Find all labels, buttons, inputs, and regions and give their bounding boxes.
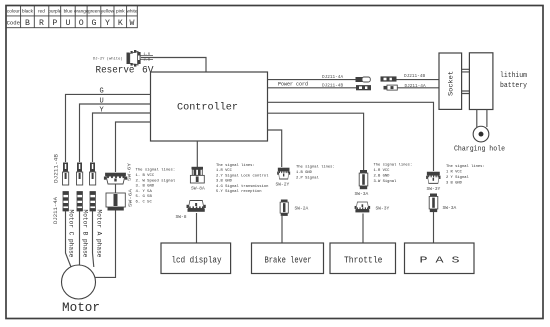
- svg-text:2.B GND: 2.B GND: [374, 175, 391, 179]
- svg-text:U: U: [66, 19, 71, 28]
- svg-text:The signal lines:: The signal lines:: [446, 164, 485, 169]
- brake lever box: [252, 243, 324, 274]
- controller U1 box: [151, 72, 268, 141]
- svg-text:1 R VCC: 1 R VCC: [446, 171, 463, 175]
- svg-text:Code: Code: [7, 20, 20, 27]
- svg-text:colour: colour: [7, 9, 20, 14]
- wire motor B phase: [79, 211, 81, 266]
- charging stem: [477, 110, 487, 128]
- svg-text:3.W Signal: 3.W Signal: [374, 179, 398, 184]
- brake signal lines note: [296, 165, 335, 181]
- svg-text:Charging hole: Charging hole: [454, 146, 505, 154]
- wire SW-3Y to throttle: [362, 214, 364, 243]
- connector DJ211-4A male A: [90, 192, 96, 212]
- svg-text:The signal lines:: The signal lines:: [374, 163, 413, 168]
- svg-text:orange: orange: [74, 9, 89, 14]
- svg-text:white: white: [127, 9, 138, 14]
- svg-text:3.B GND: 3.B GND: [216, 180, 233, 184]
- wire motor A phase: [93, 211, 94, 267]
- svg-text:lcd display: lcd display: [172, 256, 222, 266]
- connector pair row2 female: [384, 85, 398, 90]
- svg-text:SW-8: SW-8: [176, 214, 187, 220]
- svg-text:SW-6A: SW-6A: [128, 189, 134, 207]
- svg-text:SW-2A: SW-2A: [295, 206, 309, 212]
- colour code table: [6, 6, 137, 28]
- wire controller to SW-3Y pas: [268, 102, 434, 171]
- svg-text:The signal lines:: The signal lines:: [136, 168, 176, 173]
- svg-text:P: P: [52, 19, 57, 28]
- svg-text:The signal lines:: The signal lines:: [216, 163, 255, 168]
- svg-text:2.P Signal: 2.P Signal: [296, 176, 320, 181]
- svg-text:battery: battery: [500, 82, 528, 90]
- svg-text:The signal lines:: The signal lines:: [296, 165, 335, 170]
- svg-text:1. B VCC: 1. B VCC: [136, 174, 155, 178]
- wire SW-8 to lcd: [196, 213, 198, 243]
- svg-text:3. B GND: 3. B GND: [136, 185, 155, 189]
- socket-battery link top: [462, 69, 470, 72]
- connector SW-2Y: [277, 168, 290, 179]
- power cord wire 1: [268, 79, 356, 81]
- hall signal lines note: [136, 168, 176, 205]
- connector SW-3Y pas: [426, 172, 440, 184]
- svg-text:Y: Y: [105, 19, 110, 28]
- socket-battery link bottom: [462, 91, 470, 94]
- svg-text:SW-8A: SW-8A: [191, 186, 205, 192]
- svg-text:U: U: [100, 97, 104, 105]
- svg-text:DJ211-4A: DJ211-4A: [322, 75, 343, 80]
- connector SW-2A: [280, 200, 288, 216]
- svg-text:5.Y Signal reception: 5.Y Signal reception: [216, 189, 262, 194]
- svg-text:purple: purple: [48, 9, 61, 14]
- svg-text:SW-6Y: SW-6Y: [127, 163, 133, 181]
- connector SW-6A: [106, 193, 125, 211]
- connector DJ211-4B female C: [63, 163, 69, 186]
- svg-text:4.G Signal transmission: 4.G Signal transmission: [216, 184, 268, 189]
- connector pair row2 male: [356, 85, 371, 90]
- connector SW-8A: [190, 167, 204, 183]
- svg-text:R: R: [39, 19, 44, 28]
- connector SW-3Y throttle: [355, 202, 371, 212]
- svg-text:Throttle: Throttle: [344, 256, 383, 266]
- svg-text:SW-3Y: SW-3Y: [376, 206, 390, 212]
- connector DJ211-4A male C: [63, 192, 69, 212]
- svg-text:6. C 5C: 6. C 5C: [136, 201, 153, 205]
- connector DJ211-4B female A: [90, 163, 96, 186]
- svg-text:B: B: [25, 19, 30, 28]
- svg-text:Socket: Socket: [447, 71, 455, 96]
- svg-text:G: G: [92, 19, 97, 28]
- connector SW-8 crown: [187, 201, 206, 212]
- svg-text:1.B GND: 1.B GND: [296, 171, 313, 175]
- svg-text:2.Y Signal Lock control: 2.Y Signal Lock control: [216, 173, 269, 178]
- svg-text:SW-3A: SW-3A: [443, 205, 457, 211]
- connector SW-3A throttle: [359, 170, 368, 189]
- svg-text:1.R VCC: 1.R VCC: [216, 169, 233, 173]
- connector DJ211-4B female B: [77, 163, 83, 186]
- lcd signal lines note: [216, 163, 269, 194]
- svg-text:Brake lever: Brake lever: [265, 256, 312, 266]
- svg-text:1.R VCC: 1.R VCC: [374, 169, 391, 173]
- svg-text:black: black: [22, 9, 34, 14]
- svg-text:yellow: yellow: [101, 9, 115, 14]
- colour code table row1 text: [7, 9, 138, 14]
- svg-text:Motor: Motor: [62, 301, 100, 315]
- wire hall through: [95, 185, 116, 278]
- reserve connector DJ-2Y: [93, 50, 153, 67]
- svg-text:K: K: [118, 19, 123, 28]
- svg-text:pink: pink: [116, 9, 125, 14]
- connector SW-3A pas: [429, 194, 438, 213]
- throttle box: [330, 243, 396, 274]
- svg-text:O: O: [79, 19, 84, 28]
- wire U: [80, 104, 151, 162]
- svg-text:lithium: lithium: [500, 72, 527, 80]
- colour code table row2 text: [7, 19, 135, 28]
- wire SW-3A to pas: [433, 212, 435, 243]
- svg-text:DJ-2Y (white): DJ-2Y (white): [93, 57, 123, 62]
- svg-text:3 B GND: 3 B GND: [446, 182, 463, 186]
- wire controller to SW-3A throttle: [268, 113, 364, 170]
- wire motor C phase: [66, 211, 72, 267]
- svg-text:G: G: [100, 87, 104, 95]
- wire controller to SW-8A: [196, 141, 198, 167]
- svg-text:DJ211-4B: DJ211-4B: [322, 83, 343, 88]
- svg-text:Power cord: Power cord: [278, 81, 308, 87]
- svg-text:2. W Speed signal: 2. W Speed signal: [136, 178, 176, 183]
- svg-text:Controller: Controller: [177, 102, 238, 114]
- svg-text:2 Y Signal: 2 Y Signal: [446, 175, 470, 180]
- svg-text:P A S: P A S: [420, 256, 460, 266]
- charging hole: [473, 126, 489, 142]
- connector pair row1 male: [381, 76, 397, 81]
- lcd display box: [161, 243, 231, 274]
- svg-text:4. Y 5A: 4. Y 5A: [136, 190, 153, 194]
- wire to socket 1: [397, 79, 440, 81]
- wire G: [66, 94, 151, 162]
- svg-text:blue: blue: [64, 9, 73, 14]
- connector SW-6Y: [104, 173, 127, 184]
- svg-text:SW-2Y: SW-2Y: [276, 182, 290, 188]
- wire SW-2A to brake: [281, 216, 283, 243]
- svg-text:Reserve: Reserve: [96, 65, 135, 77]
- power cord wire 2: [268, 87, 357, 89]
- svg-text:green: green: [88, 9, 100, 14]
- svg-text:W: W: [130, 19, 135, 28]
- svg-text:SW-3A: SW-3A: [355, 191, 369, 197]
- svg-text:Motor A phase: Motor A phase: [95, 210, 103, 258]
- wire reserve to controller top: [141, 58, 206, 73]
- svg-text:Motor B phase: Motor B phase: [81, 210, 89, 258]
- svg-text:DJ211-4A: DJ211-4A: [53, 197, 59, 224]
- svg-text:5. G 5B: 5. G 5B: [136, 195, 153, 199]
- svg-text:red: red: [38, 9, 45, 14]
- svg-text:SW-3Y: SW-3Y: [427, 186, 441, 192]
- throttle signal lines note: [374, 163, 413, 185]
- svg-text:Motor C phase: Motor C phase: [67, 210, 75, 258]
- wire controller to SW-2Y: [268, 130, 282, 167]
- motor M1 circle: [62, 265, 96, 299]
- wire to socket 2: [398, 87, 440, 89]
- svg-text:DJ211-4B: DJ211-4B: [404, 74, 425, 79]
- connector DJ211-4A male B: [77, 192, 83, 212]
- wire hall to SW-6Y: [116, 122, 151, 172]
- wire Y: [93, 113, 151, 162]
- socket box: [439, 53, 462, 109]
- pas signal lines note: [446, 164, 485, 186]
- connector pair row1 female: [356, 77, 371, 82]
- lithium battery box: [469, 53, 493, 110]
- svg-text:DJ211-4B: DJ211-4B: [54, 154, 60, 183]
- pas box: [405, 243, 475, 274]
- svg-text:1.R: 1.R: [144, 53, 151, 57]
